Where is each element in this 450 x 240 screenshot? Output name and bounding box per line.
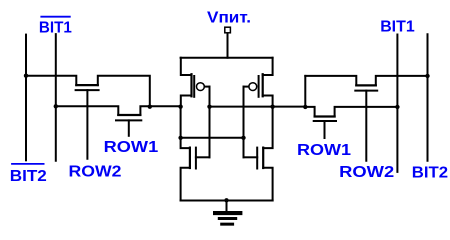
wire node A horizontal <box>181 137 244 139</box>
wire U1 gate lead to gate column <box>205 86 210 88</box>
transistor U1 PMOS left: gate bubble <box>197 83 205 91</box>
wire U2 gate lead to gate column <box>244 86 249 88</box>
junction dot node A lower left <box>178 136 182 140</box>
transistor Q2 NMOS right: channel bar <box>262 148 264 168</box>
wire T3 gate lead down to ROW2 <box>365 91 367 161</box>
transistor U2 PMOS right: channel bar <box>262 74 264 96</box>
transistor U2 PMOS right: drain stub and lead down to node B <box>263 96 273 107</box>
wire H4 right part from T4 to BIT1 line <box>335 107 398 117</box>
wire Q2 gate lead <box>244 156 258 158</box>
svg-text:BIT2: BIT2 <box>412 164 448 181</box>
transistor U2 PMOS right: gate bar <box>258 76 260 97</box>
transistor U2 PMOS right: source lead from rail <box>263 58 273 75</box>
transistor U2 PMOS right: gate bubble <box>249 83 257 91</box>
svg-text:Vпит.: Vпит. <box>207 10 251 27</box>
wire T2 gate lead down to ROW1 <box>128 120 130 135</box>
transistor Q1 NMOS left: channel bar <box>189 148 191 168</box>
ground bar 1 <box>215 211 240 215</box>
wire H1 right part from T1 to left jog <box>98 76 150 107</box>
transistor Q1 NMOS left: gate bar <box>195 148 197 169</box>
overline of BIT2-bar <box>11 163 44 165</box>
wire H3 right part from T3 to BIT2 line <box>376 76 428 86</box>
transistor T3 channel (right access, gate ROW2) <box>356 84 376 86</box>
wire T4 gate lead down to ROW1 <box>324 121 326 138</box>
svg-text:ROW2: ROW2 <box>69 163 122 180</box>
wire Vpit lead <box>227 34 229 58</box>
transistor Q2 NMOS right: source stub and lead to ground rail <box>263 168 272 201</box>
ground bar 2 <box>219 217 235 220</box>
wire ground lead <box>226 201 228 212</box>
wire H4 lower right horizontal from node B to T4 <box>305 107 314 117</box>
transistor T1 gate bar <box>76 89 99 91</box>
junction dot node A at right gate column <box>241 136 245 140</box>
wire right gate column (U2 and Q2 gates) through node A dot <box>243 87 245 158</box>
junction dot BIT1-bar / H2 <box>54 104 58 108</box>
junction dot BIT2 / H3 <box>425 74 429 78</box>
wire Q1 gate lead <box>196 156 210 158</box>
transistor T4 gate bar <box>314 120 336 122</box>
junction dot ground rail <box>224 198 228 202</box>
wire BIT2 line (right outer vertical) <box>427 34 429 160</box>
transistor T2 gate bar <box>116 119 141 121</box>
svg-text:ROW2: ROW2 <box>339 164 394 181</box>
junction dot node B at PMOS2 drain <box>270 104 274 108</box>
svg-text:ROW1: ROW1 <box>297 142 351 159</box>
wire BIT2-bar line (left outer vertical) <box>25 35 27 161</box>
svg-text:BIT1: BIT1 <box>39 20 72 37</box>
junction dot node B at gate column left <box>207 104 211 108</box>
transistor T2 channel (left access, gate ROW1) <box>118 114 140 116</box>
transistor U1 PMOS left: drain stub and lead down to node A <box>181 96 192 107</box>
transistor T4 channel (right access, gate ROW1) <box>315 115 335 117</box>
power terminal square <box>225 27 231 33</box>
transistor U1 PMOS left: gate bar <box>193 76 195 97</box>
overline of BIT1-bar <box>40 16 70 18</box>
svg-text:ROW1: ROW1 <box>104 139 159 156</box>
transistor T3 gate bar <box>355 90 377 92</box>
junction dot BIT1 / H4 <box>395 105 399 109</box>
wire H2 lower left horizontal from BIT1-bar to T2 <box>56 106 119 115</box>
transistor U1 PMOS left: channel bar <box>190 74 192 96</box>
svg-text:BIT1: BIT1 <box>380 19 415 36</box>
transistor Q1 NMOS left: source stub and lead to ground rail <box>181 168 190 201</box>
junction dot left jog / node A <box>148 104 152 108</box>
ground bar 3 <box>222 223 233 226</box>
wire node B horizontal <box>210 106 306 108</box>
wire BIT1 line (right inner vertical) <box>396 35 398 172</box>
wire node B vertical and Q2 drain stub <box>263 107 272 148</box>
svg-text:BIT2: BIT2 <box>10 168 47 185</box>
wire left gate column (U1 and Q1 gates) to node B dot <box>209 87 211 158</box>
wire H1 upper left horizontal from BIT2-bar to T1 <box>26 76 76 85</box>
transistor Q2 NMOS right: gate bar <box>256 148 258 169</box>
wire T1 gate lead down to ROW2 <box>86 90 88 159</box>
wire H2 right part from T2 to node A <box>140 106 180 115</box>
wire Vdd rail <box>181 57 273 59</box>
wire H3 upper right horizontal from right jog to T3 <box>305 76 356 86</box>
wire node A vertical and Q1 drain stub <box>181 107 190 148</box>
transistor U1 PMOS left: source lead from rail <box>181 58 192 75</box>
wire right jog from H3 down to node B <box>304 76 306 107</box>
wire ground rail <box>181 200 273 202</box>
junction dot node A at PMOS1 drain <box>178 104 182 108</box>
junction dot node B at right jog <box>303 105 307 109</box>
junction dot BIT2-bar / H1 <box>24 74 28 78</box>
transistor T1 channel (left access, gate ROW2) <box>76 84 98 86</box>
wire BIT1-bar line (left inner vertical) <box>55 34 57 161</box>
